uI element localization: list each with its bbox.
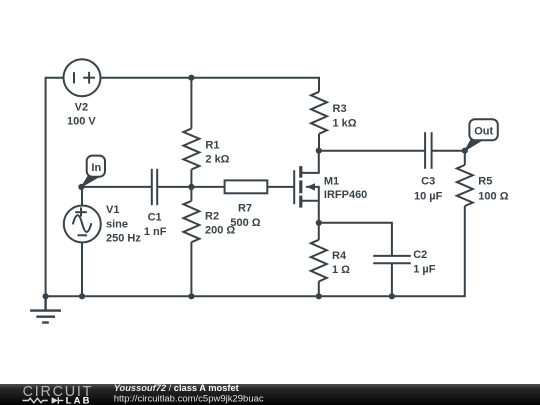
wire bottom rail [46, 206, 465, 296]
wire R7 to gate [267, 186, 294, 188]
wire R5 top lead [464, 151, 466, 165]
wire R4 bottom lead [318, 281, 320, 296]
svg-text:Youssouf72 / class A mosfet: Youssouf72 / class A mosfet [114, 383, 239, 393]
svg-text:V1: V1 [106, 204, 119, 216]
wire C1 to junction [157, 186, 224, 188]
svg-text:R7: R7 [238, 203, 252, 215]
svg-text:1 nF: 1 nF [144, 226, 167, 238]
node G (ground left) [43, 293, 49, 299]
wire R2 top lead [190, 187, 192, 201]
node J (R4 bottom) [316, 293, 322, 299]
svg-text:http://circuitlab.com/c5pw9jk2: http://circuitlab.com/c5pw9jk29buac [114, 393, 264, 404]
ground [30, 296, 61, 322]
svg-text:1 kΩ: 1 kΩ [333, 118, 357, 130]
wire drain rail [319, 150, 425, 152]
node C (top rail / R1) [188, 75, 194, 81]
capacitor C2 [373, 256, 411, 263]
wire V1 top [81, 187, 83, 206]
svg-text:R1: R1 [205, 140, 219, 152]
svg-text:IRFP460: IRFP460 [324, 189, 367, 201]
resistor R7 box [225, 180, 268, 193]
resistor R2 [183, 201, 199, 242]
node H (V1 bottom) [79, 293, 85, 299]
wire mid rail left [81, 186, 151, 188]
transistor M1 [294, 151, 319, 223]
svg-text:LAB: LAB [66, 395, 92, 405]
wire R3 bottom lead [318, 134, 320, 151]
svg-text:100 Ω: 100 Ω [478, 191, 508, 203]
node B (R1/R2/C1/R7 junction) [188, 184, 194, 190]
node E (source) [316, 220, 322, 226]
capacitor C1 [152, 169, 157, 205]
svg-text:R2: R2 [205, 210, 219, 222]
wire C2 bottom [391, 263, 393, 296]
wire R2 bottom lead [190, 242, 192, 296]
svg-text:C3: C3 [421, 176, 435, 188]
wire top rail [101, 78, 320, 92]
svg-text:1 µF: 1 µF [413, 264, 436, 276]
svg-text:sine: sine [106, 219, 128, 231]
logo resistor squiggle [22, 397, 63, 404]
wire R1 bottom lead [190, 169, 192, 187]
svg-text:Out: Out [474, 125, 493, 137]
node D (drain) [316, 148, 322, 154]
wire source node to C2 [319, 223, 392, 256]
node I (R2 bottom) [188, 293, 194, 299]
svg-text:V2: V2 [75, 102, 88, 114]
svg-text:250 Hz: 250 Hz [106, 233, 141, 245]
footer bar [0, 383, 540, 405]
svg-text:In: In [91, 162, 101, 174]
wire C3 to out node [432, 150, 465, 152]
resistor R3 [311, 92, 327, 134]
svg-text:R3: R3 [333, 103, 347, 115]
wire R1 top lead [190, 78, 192, 129]
svg-text:2 kΩ: 2 kΩ [205, 153, 229, 165]
svg-text:C2: C2 [413, 249, 427, 261]
resistor R4 [311, 240, 327, 282]
resistor R1 [183, 129, 199, 170]
node A (In junction) [78, 184, 84, 190]
svg-text:R4: R4 [332, 250, 347, 262]
node K (C2 bottom) [389, 293, 395, 299]
svg-text:500 Ω: 500 Ω [230, 217, 260, 229]
logo diode [52, 397, 58, 404]
svg-text:10 µF: 10 µF [414, 191, 443, 203]
node F (out) [462, 148, 468, 154]
wire R4 top lead [318, 223, 320, 240]
wire V1 bottom [81, 243, 83, 297]
svg-text:100 V: 100 V [67, 116, 96, 128]
resistor R5 [457, 165, 473, 206]
capacitor C3 [425, 132, 432, 169]
svg-text:R5: R5 [478, 176, 492, 188]
svg-text:C1: C1 [148, 212, 162, 224]
voltage source V1 [64, 206, 101, 243]
wire left rail [46, 78, 64, 297]
flag In [81, 156, 105, 187]
voltage source V2 [64, 59, 101, 96]
svg-text:M1: M1 [324, 176, 339, 188]
flag Out [465, 119, 498, 151]
svg-text:1 Ω: 1 Ω [332, 264, 350, 276]
